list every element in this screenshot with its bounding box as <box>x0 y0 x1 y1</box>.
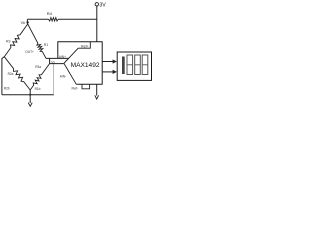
node Vb junction dot <box>26 21 28 23</box>
svg-text:R2b: R2b <box>4 86 10 90</box>
resistor R4 <box>49 18 59 21</box>
wire bridge left node to bottom rail <box>2 57 4 95</box>
svg-text:AIN+: AIN+ <box>59 55 66 59</box>
LCD digit 8 (third) <box>142 55 148 75</box>
svg-text:3V: 3V <box>99 2 106 8</box>
op-amp U1 input wedge (MAX1492) <box>64 42 90 84</box>
LCD display module <box>117 52 151 80</box>
pin REF- bracket <box>82 84 90 89</box>
resistor R3 (bridge top-left arm) <box>4 24 27 57</box>
wire AIN+ from bridge right node <box>46 57 69 59</box>
svg-text:Ref+: Ref+ <box>81 45 89 49</box>
svg-text:R1: R1 <box>44 43 49 47</box>
svg-text:Ref-: Ref- <box>72 86 80 90</box>
svg-text:Vb: Vb <box>21 21 26 25</box>
svg-text:R2a: R2a <box>8 72 14 76</box>
wire VDD vertical from 3V terminal to MAX1492 top <box>96 6 98 42</box>
svg-text:OUT+: OUT+ <box>25 50 34 54</box>
LCD digit 8 (first) <box>127 55 133 75</box>
svg-text:MAX1492: MAX1492 <box>71 62 100 69</box>
svg-text:AIN-: AIN- <box>60 75 66 79</box>
wire COM bus to LCD (bottom) <box>102 70 117 74</box>
wire bottom rail <box>2 94 54 96</box>
resistor R1b (bridge bottom-right arm) <box>30 64 49 90</box>
ground (MAX1492 GND pin) <box>95 84 99 99</box>
resistor R2 (bridge bottom-left arm) <box>4 57 30 90</box>
svg-text:R3: R3 <box>6 39 11 43</box>
svg-text:Vx: Vx <box>51 60 55 64</box>
wire AIN- stub <box>50 58 64 63</box>
resistor R1 (bridge top-right arm) <box>28 24 46 58</box>
wire bridge top to supply (horizontal) <box>27 18 48 20</box>
node junction bottom rail <box>29 94 31 96</box>
svg-text:R1b: R1b <box>35 87 41 91</box>
ADC U1 MAX1492 outline <box>58 42 102 84</box>
wire Vx tap (faint) <box>53 64 55 95</box>
LCD digit 8 (second) <box>135 55 141 75</box>
wire bridge top stub <box>26 19 28 24</box>
power terminal 3V <box>95 2 106 8</box>
svg-text:R4: R4 <box>47 11 53 16</box>
LCD digit 1 (leading) <box>122 57 125 75</box>
svg-text:R3a: R3a <box>35 65 41 69</box>
wire SEG bus to LCD (top) <box>102 59 117 63</box>
ground (bridge bottom) <box>28 90 32 106</box>
